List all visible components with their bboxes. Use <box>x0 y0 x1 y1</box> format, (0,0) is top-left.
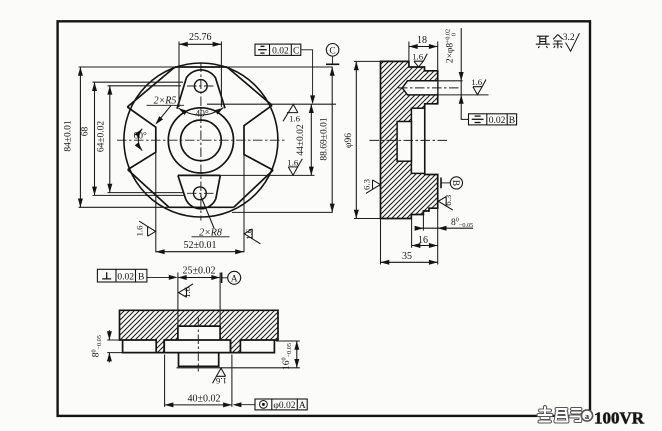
datum A <box>222 271 241 284</box>
svg-text:16: 16 <box>418 235 428 246</box>
dimension 16 (side view) <box>412 235 438 248</box>
right face extension down <box>437 208 439 264</box>
front view extension lines <box>79 42 336 253</box>
slot edge extensions for 2xphi8 <box>438 80 463 82</box>
side view extension lines <box>354 42 489 265</box>
front view outer circle phi96 <box>124 63 278 217</box>
svg-text:C: C <box>329 47 335 57</box>
svg-text:2×φ8: 2×φ8 <box>446 43 456 64</box>
left V-notch <box>127 107 156 170</box>
svg-text:40°: 40° <box>195 109 209 120</box>
68 dim extensions <box>93 81 184 83</box>
roughness 1.6 on left 52-extension line <box>139 221 155 236</box>
bottom ear hole <box>194 187 207 200</box>
dimension 40±0.02 <box>165 393 232 407</box>
side view sectioned body with hatching <box>381 61 438 218</box>
16 dim extensions <box>276 340 300 342</box>
dimension 2xphi8 <box>444 28 468 119</box>
8 dim extension <box>422 215 424 231</box>
svg-text:A: A <box>231 275 238 285</box>
datum C <box>326 44 339 65</box>
dimension 88.69±0.01 <box>320 67 335 212</box>
roughness 1.6 inverted on 16 extension line <box>213 368 226 383</box>
dimension 68 <box>81 82 98 195</box>
svg-text:18: 18 <box>417 35 427 46</box>
svg-text:84±0.01: 84±0.01 <box>64 120 74 152</box>
svg-text:52±0.01: 52±0.01 <box>184 240 217 251</box>
svg-text:68: 68 <box>81 127 91 137</box>
center bore <box>397 122 411 162</box>
roughness 6.3 on left face <box>366 180 381 194</box>
lower boss block <box>179 353 219 367</box>
dimension 60 degrees <box>134 127 148 152</box>
svg-text:1.6: 1.6 <box>289 113 301 123</box>
note: remainder roughness 3.2 <box>536 35 563 49</box>
svg-text:1.6: 1.6 <box>215 376 227 386</box>
bottom-left corner chord <box>128 170 169 208</box>
counterbore recess <box>411 108 424 173</box>
front view centerlines <box>117 63 285 221</box>
top ear hole <box>194 80 207 93</box>
svg-text:0.02: 0.02 <box>272 46 289 56</box>
svg-text:88.69±0.01: 88.69±0.01 <box>320 117 330 160</box>
bottom flat chord <box>169 206 234 208</box>
bottom ear U arc <box>186 199 216 209</box>
top-left corner chord <box>127 67 175 107</box>
svg-text:6.3: 6.3 <box>443 194 453 206</box>
datum B <box>441 177 463 189</box>
bottom-right corner chord <box>234 170 273 207</box>
dimension 35 (side view) <box>381 251 438 265</box>
phi96 extensions <box>354 60 381 62</box>
left foot block <box>123 340 157 353</box>
roughness 6.3 on lower right face <box>438 197 453 211</box>
drawing frame <box>58 21 590 416</box>
svg-text:6.3: 6.3 <box>362 178 372 190</box>
dimension 84±0.01 <box>64 67 83 207</box>
bottom view extension lines <box>107 273 300 407</box>
svg-text:φ96: φ96 <box>344 133 354 148</box>
concentricity tolerance frame phi0.02 A <box>237 399 308 410</box>
52 extensions <box>155 152 157 252</box>
bottom flat extension to 84 dim <box>79 206 169 208</box>
dimension 8 -0.05 (side view) <box>415 217 474 231</box>
svg-text:100VR: 100VR <box>594 409 645 428</box>
svg-text:φ0.02: φ0.02 <box>273 401 295 411</box>
svg-text:64±0.02: 64±0.02 <box>97 121 107 153</box>
dimension 25.76 <box>179 32 221 47</box>
svg-text:44±0.02: 44±0.02 <box>296 124 306 156</box>
bottom view flange section (hatched) <box>120 310 279 352</box>
25 dim extensions (slot walls) <box>177 273 179 327</box>
label 2xR5 <box>147 96 185 127</box>
svg-text:25±0.02: 25±0.02 <box>183 265 216 276</box>
right V-notch <box>244 105 273 170</box>
roughness 1.6 on slot lower ext line <box>473 80 486 95</box>
roughness 1.6 on right 52-extension line <box>244 229 260 244</box>
watermark sohu glyphs <box>539 407 593 422</box>
center bore circle <box>181 120 222 161</box>
roughness 1.6 on top step <box>414 54 427 67</box>
88.69 bottom extension <box>232 211 333 213</box>
hub boss circle <box>168 108 233 173</box>
roughness 1.6 on left slot wall extension <box>179 284 194 298</box>
svg-text:0.02: 0.02 <box>489 116 506 126</box>
symmetry tolerance frame 0.02 C <box>255 44 313 100</box>
bottom ear lug <box>178 175 220 198</box>
dimension 64±0.02 <box>97 86 113 193</box>
16 dim extension <box>411 219 413 248</box>
dimension 40 degrees <box>177 106 225 120</box>
top-right corner chord <box>227 67 272 105</box>
dimension 25±0.02 <box>178 265 220 280</box>
40 dim extensions <box>164 355 166 407</box>
perpendicularity tolerance frame 0.02 B <box>97 269 174 282</box>
label 2xR8 <box>192 196 230 239</box>
dimension 18 <box>409 35 438 49</box>
bottom view centerline <box>197 318 199 372</box>
svg-text:60°: 60° <box>134 130 148 141</box>
svg-text:3.2: 3.2 <box>563 33 575 43</box>
svg-text:B: B <box>138 273 144 283</box>
18 dim extensions <box>408 42 410 62</box>
pin hole slot 2xphi8 <box>402 81 437 95</box>
dimension phi96 <box>344 61 359 218</box>
35 dim extension <box>380 219 382 265</box>
8 dim extensions <box>107 339 124 341</box>
svg-text:1.6: 1.6 <box>182 286 192 298</box>
svg-text:1.6: 1.6 <box>287 157 299 167</box>
svg-text:40±0.02: 40±0.02 <box>188 393 221 404</box>
top ear lug <box>177 70 225 109</box>
25.76 extensions <box>178 42 180 108</box>
middle boss block <box>164 340 230 353</box>
dimension 8 -0.05 (bottom view) <box>90 330 112 362</box>
dimension 16 -0.05 (bottom view) <box>281 341 300 370</box>
top flat extension to 84 and 88.69 dims <box>79 66 175 68</box>
dimension 52±0.01 <box>156 240 244 254</box>
svg-text:A: A <box>299 401 306 411</box>
svg-text:1.6: 1.6 <box>412 51 424 61</box>
roughness 1.6 upper right (inverted, on 44 top ext line) <box>283 104 298 121</box>
right foot block <box>240 340 274 353</box>
dimension 44±0.02 <box>296 104 314 175</box>
svg-text:35: 35 <box>402 251 412 262</box>
top flat chord <box>175 66 227 68</box>
symmetry tolerance frame 0.02 B <box>469 114 517 125</box>
64 dim extensions <box>108 85 182 87</box>
svg-text:B: B <box>450 180 460 186</box>
svg-text:1.6: 1.6 <box>471 77 483 87</box>
roughness 1.6 lower right (on 44 bottom ext line) <box>288 159 302 175</box>
svg-text:B: B <box>509 116 515 126</box>
side view centerlines <box>370 88 461 140</box>
svg-text:25.76: 25.76 <box>189 32 212 43</box>
44 dim extensions <box>207 103 336 105</box>
svg-text:1.6: 1.6 <box>244 228 254 240</box>
svg-text:1.6: 1.6 <box>135 225 145 237</box>
svg-text:C: C <box>293 46 299 56</box>
svg-text:0: 0 <box>451 33 458 36</box>
svg-text:0.02: 0.02 <box>117 273 134 283</box>
